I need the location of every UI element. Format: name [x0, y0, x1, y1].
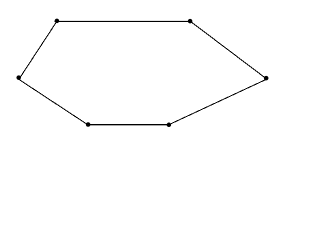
node C (right vertex) [264, 76, 269, 81]
node D (bottom-right vertex) [167, 123, 172, 128]
wire B-C (upper-right diagonal edge) [190, 21, 267, 79]
node B (top-right vertex) [188, 19, 193, 24]
wire D-E (bottom horizontal edge) [86, 125, 171, 126]
node F (left vertex) [16, 75, 21, 80]
wire A-B (top horizontal edge) [55, 21, 192, 22]
node E (bottom-left vertex) [86, 122, 91, 127]
wire E-F (lower-left diagonal edge) [18, 79, 87, 125]
wire F-A (upper-left diagonal edge) [20, 21, 57, 78]
wire C-D (lower-right diagonal edge) [169, 79, 267, 125]
node A (top-left vertex) [55, 19, 60, 24]
